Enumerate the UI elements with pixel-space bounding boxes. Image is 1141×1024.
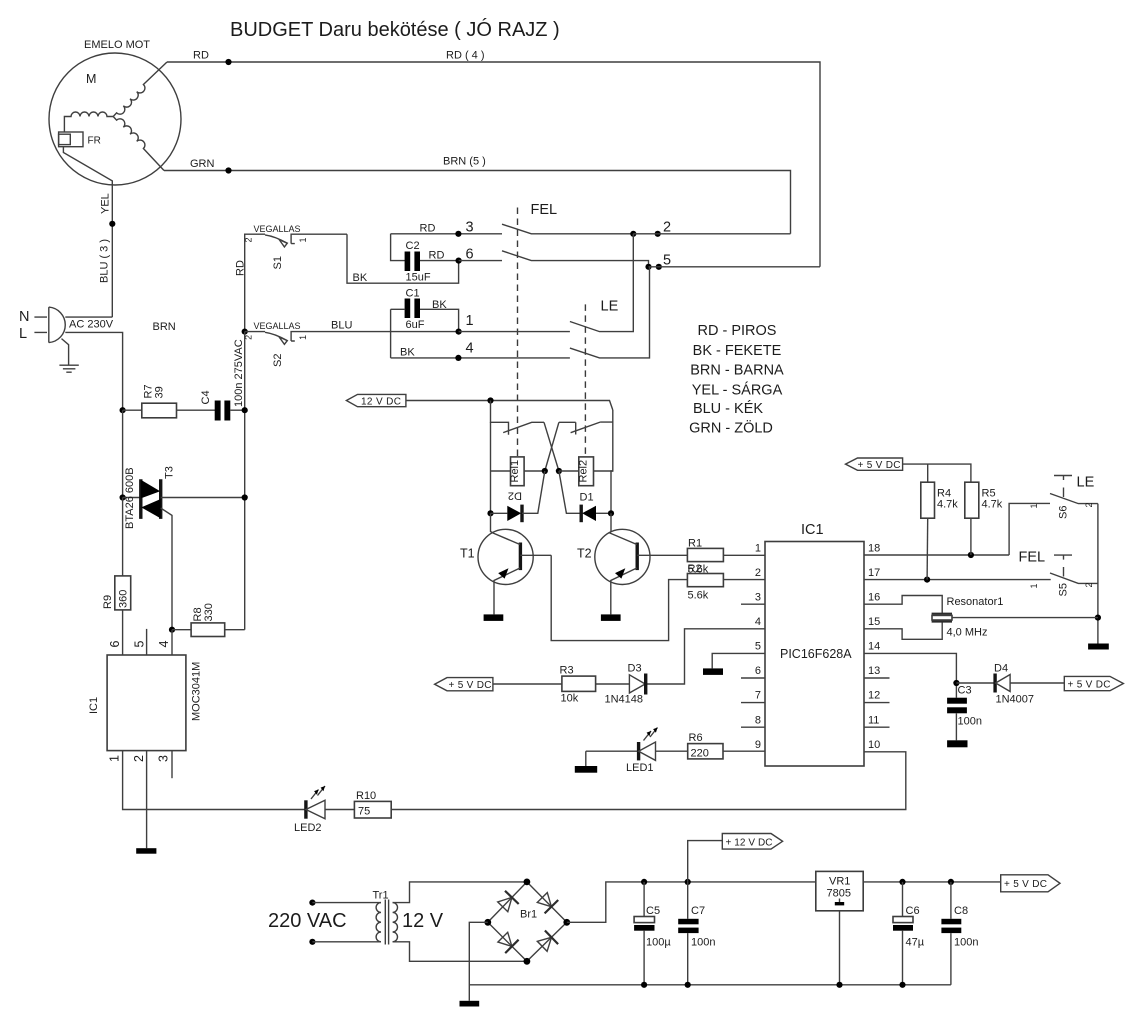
svg-text:5.6k: 5.6k	[688, 590, 709, 602]
svg-text:BRN - BARNA: BRN - BARNA	[690, 363, 784, 379]
AC plug connector AC 230V	[19, 307, 114, 343]
supply flag + 5 V DC (VR1 out)	[1001, 875, 1060, 892]
svg-text:L: L	[19, 326, 27, 342]
rail S2 down to C4/triac/R8	[244, 332, 246, 630]
svg-text:1: 1	[1029, 583, 1039, 588]
svg-text:Tr1: Tr1	[373, 890, 389, 902]
label 220 VAC	[268, 910, 347, 932]
svg-text:LE: LE	[1077, 475, 1095, 491]
wire T1 base to R2	[551, 555, 687, 640]
svg-text:1: 1	[108, 755, 122, 762]
label RD	[193, 50, 209, 62]
PIC right pin numbers	[868, 543, 880, 752]
wire VR1 out rail	[863, 879, 1001, 885]
svg-text:BTA26 600B: BTA26 600B	[124, 467, 136, 529]
svg-text:39: 39	[154, 386, 166, 398]
svg-text:C8: C8	[954, 905, 968, 917]
svg-text:12: 12	[868, 690, 880, 702]
capacitor C2 15uF	[391, 234, 459, 284]
label 100n 275VAC	[233, 339, 245, 407]
svg-text:+ 5 V DC: + 5 V DC	[858, 460, 901, 471]
svg-text:AC 230V: AC 230V	[69, 319, 114, 331]
FEL contact row 6	[502, 251, 649, 267]
wire row 3 (RD)	[391, 220, 502, 237]
bridge rectifier Br1	[484, 879, 570, 965]
svg-text:RD: RD	[420, 222, 436, 234]
svg-text:18: 18	[868, 543, 880, 555]
svg-text:2: 2	[1084, 582, 1094, 587]
svg-text:100n: 100n	[958, 716, 982, 728]
svg-text:15: 15	[868, 616, 880, 628]
node dot BRN rail at R7	[120, 407, 126, 413]
svg-text:3: 3	[466, 220, 474, 236]
svg-text:6: 6	[755, 665, 761, 677]
svg-text:BUDGET Daru bekötése ( JÓ RAJZ: BUDGET Daru bekötése ( JÓ RAJZ )	[230, 18, 560, 41]
wire BRN rail R7 to triac	[122, 410, 124, 497]
crossover wire right contact to Rel1	[545, 422, 559, 471]
label FEL top	[531, 202, 558, 218]
svg-text:5: 5	[755, 641, 761, 653]
svg-text:7805: 7805	[827, 888, 851, 900]
motor winding upper (RD phase)	[113, 62, 167, 117]
svg-text:4: 4	[157, 640, 171, 647]
svg-text:2: 2	[755, 567, 761, 579]
svg-text:4: 4	[466, 341, 474, 357]
svg-text:+ 5 V DC: + 5 V DC	[1004, 879, 1047, 890]
svg-text:100n 275VAC: 100n 275VAC	[233, 339, 245, 407]
svg-text:Resonator1: Resonator1	[947, 596, 1004, 608]
wire R10 to PIC pin10	[391, 752, 906, 810]
left rail 12V to Rel1/diode row	[490, 422, 492, 513]
wire secondary top to bridge	[393, 882, 527, 903]
svg-text:+ 12 V DC: + 12 V DC	[726, 838, 773, 849]
resistor R8 330	[169, 603, 245, 636]
svg-text:100n: 100n	[954, 937, 978, 949]
capacitor C6 47u	[893, 882, 925, 985]
svg-text:RD: RD	[235, 260, 247, 276]
stub MOC pin3	[171, 751, 173, 779]
svg-text:2: 2	[1084, 502, 1094, 507]
wire plug N to BLU(3)	[65, 316, 112, 318]
label LE top	[601, 299, 619, 315]
svg-text:C4: C4	[200, 390, 212, 404]
transformer Tr1	[373, 890, 444, 945]
svg-text:Rel1: Rel1	[509, 460, 521, 483]
motor winding left (FR phase)	[64, 112, 113, 132]
stub pin12	[864, 702, 890, 704]
svg-text:BRN (5 ): BRN (5 )	[443, 156, 486, 168]
diode D1 (flyback Rel2)	[559, 471, 614, 522]
svg-text:RD: RD	[193, 50, 209, 62]
svg-text:C6: C6	[906, 905, 920, 917]
resistor R3 10k	[493, 665, 596, 705]
title	[230, 18, 560, 41]
ground LED1	[575, 751, 597, 773]
wire pin14 to C3/D4	[864, 653, 995, 697]
svg-text:3: 3	[755, 592, 761, 604]
svg-text:VEGALLAS: VEGALLAS	[254, 224, 301, 234]
thermal switch FR	[59, 132, 101, 147]
svg-text:Rel2: Rel2	[578, 460, 590, 483]
ground PIC pin5	[703, 668, 723, 675]
svg-text:2: 2	[132, 755, 146, 762]
resistor R5 4.7k	[965, 482, 1003, 555]
svg-text:1N4007: 1N4007	[996, 694, 1035, 706]
wire LED2 to R10	[325, 809, 354, 811]
pushbutton S5 FEL	[1019, 550, 1098, 597]
svg-text:13: 13	[868, 665, 880, 677]
svg-text:IC1: IC1	[88, 697, 100, 714]
svg-text:4.7k: 4.7k	[937, 499, 958, 511]
bridge diode bottom-left	[498, 932, 519, 953]
svg-text:330: 330	[203, 603, 215, 621]
colour legend	[689, 323, 784, 437]
node dot rail at C4	[242, 407, 248, 413]
capacitor C1 6uF	[391, 288, 459, 358]
transistor T1	[460, 513, 551, 614]
motor winding lower (GRN phase)	[113, 117, 164, 171]
right rail S6/S5 to ground	[1095, 504, 1101, 644]
svg-text:16: 16	[868, 592, 880, 604]
svg-text:FR: FR	[88, 136, 101, 147]
svg-text:C1: C1	[406, 288, 420, 300]
LE contact row 1	[570, 234, 633, 332]
limit switch S1 VEGALLAS	[244, 224, 348, 332]
label BRN (5 )	[443, 156, 486, 168]
svg-text:7: 7	[755, 690, 761, 702]
node 2 junction	[630, 220, 790, 237]
svg-text:R9: R9	[102, 595, 114, 609]
wire plug L to BRN rail	[65, 332, 122, 410]
svg-text:LED1: LED1	[626, 762, 654, 774]
wire FR to YEL node	[63, 147, 112, 317]
ground MOC pin2	[136, 848, 156, 854]
svg-text:100n: 100n	[691, 937, 715, 949]
svg-text:S1: S1	[272, 256, 284, 269]
wire S1 output BK to node 6	[347, 234, 459, 284]
wire row 6 (RD)	[429, 246, 503, 263]
stub pin13	[864, 677, 890, 679]
svg-text:C7: C7	[691, 905, 705, 917]
capacitor C8 100n	[941, 882, 978, 985]
svg-text:47µ: 47µ	[906, 937, 925, 949]
stub pin6	[741, 677, 765, 679]
ground C3	[947, 740, 967, 747]
svg-text:BLU: BLU	[331, 320, 352, 332]
svg-text:T2: T2	[577, 547, 592, 561]
wire ground rail bottom	[469, 982, 951, 988]
svg-text:8: 8	[755, 715, 761, 727]
capacitor C5 100u	[634, 882, 671, 985]
resistor R10 75	[354, 790, 391, 818]
svg-text:RD: RD	[429, 249, 445, 261]
label GRN	[190, 158, 215, 170]
svg-text:4.7k: 4.7k	[982, 499, 1003, 511]
diode D3 1N4148	[596, 663, 646, 706]
svg-text:M: M	[86, 72, 96, 86]
svg-text:T3: T3	[164, 466, 176, 479]
wire row 1 (BLU) node	[456, 313, 570, 335]
svg-text:10: 10	[868, 739, 880, 751]
FEL contact row 3	[502, 224, 633, 234]
wire MOC pin4	[171, 630, 173, 655]
svg-text:YEL: YEL	[100, 193, 112, 214]
stub pin3	[741, 603, 765, 605]
capacitor C4 100n 275VAC	[200, 390, 245, 420]
bridge diode top-right	[537, 893, 558, 914]
svg-text:LE: LE	[601, 299, 619, 315]
node dot on GRN wire	[225, 167, 231, 173]
svg-text:LED2: LED2	[294, 822, 322, 834]
svg-text:T1: T1	[460, 547, 475, 561]
svg-text:BK: BK	[432, 299, 447, 311]
svg-text:R1: R1	[688, 538, 702, 550]
LED2	[294, 786, 325, 834]
svg-text:D4: D4	[994, 663, 1008, 675]
resistor R9 360	[102, 498, 131, 656]
wire RD (4) top net	[167, 62, 820, 267]
wire secondary bottom to bridge	[393, 942, 527, 962]
svg-text:BLU - KÉK: BLU - KÉK	[693, 400, 763, 417]
svg-text:FEL: FEL	[531, 202, 558, 218]
svg-text:1: 1	[298, 237, 308, 242]
svg-text:2: 2	[663, 220, 671, 236]
label RD on rail	[235, 260, 247, 276]
svg-text:17: 17	[868, 567, 880, 579]
svg-text:6uF: 6uF	[406, 319, 425, 331]
ground T2 emitter	[601, 614, 621, 621]
svg-text:R10: R10	[356, 790, 376, 802]
wire pin5 to ground	[712, 653, 765, 668]
svg-text:GRN - ZÖLD: GRN - ZÖLD	[689, 419, 773, 437]
bridge diode bottom-right	[537, 931, 558, 952]
svg-text:BLU ( 3 ): BLU ( 3 )	[99, 239, 111, 283]
wire pin17 to S5	[864, 577, 1051, 583]
svg-text:EMELO MOT: EMELO MOT	[84, 39, 150, 51]
svg-text:VEGALLAS: VEGALLAS	[254, 321, 301, 331]
svg-text:12 V DC: 12 V DC	[361, 397, 401, 408]
label YEL	[100, 193, 112, 214]
stub MOC pin5	[146, 629, 148, 655]
svg-text:6: 6	[108, 640, 122, 647]
capacitor C3 100n	[947, 685, 982, 741]
svg-text:BK: BK	[400, 347, 415, 359]
svg-text:100µ: 100µ	[646, 937, 671, 949]
wire pin18 to S6	[864, 552, 1009, 558]
resistor R6 220	[656, 732, 766, 760]
resistor R1 5.6k	[687, 538, 765, 576]
motor M1 EMELO MOT body	[49, 39, 181, 185]
diode D4 1N4007	[994, 663, 1064, 706]
wire pin4 to D3	[646, 629, 765, 684]
wire row 4 (BK)	[391, 341, 570, 362]
relay contact K1 (FEL)	[491, 401, 545, 435]
svg-text:+ 5 V DC: + 5 V DC	[1068, 680, 1111, 691]
svg-text:R3: R3	[560, 665, 574, 677]
label RD ( 4 )	[446, 50, 485, 62]
diode D2 (flyback Rel1)	[487, 471, 544, 522]
svg-text:MOC3041M: MOC3041M	[191, 662, 203, 721]
stub pin7	[741, 702, 765, 704]
svg-text:360: 360	[118, 590, 130, 608]
PIC left pin numbers	[755, 543, 761, 752]
svg-text:N: N	[19, 309, 29, 325]
svg-text:+ 5 V DC: + 5 V DC	[449, 680, 492, 691]
wire +12V rail	[567, 879, 816, 922]
relay coil Rel2	[556, 457, 613, 486]
svg-text:RD ( 4 ): RD ( 4 )	[446, 50, 485, 62]
svg-text:D2: D2	[508, 490, 522, 502]
svg-text:R6: R6	[689, 732, 703, 744]
svg-text:220: 220	[691, 748, 709, 760]
node 5 junction	[645, 253, 820, 270]
svg-text:C5: C5	[646, 905, 660, 917]
supply flag + 5 V DC (R3)	[435, 678, 493, 691]
capacitor C7 100n	[678, 882, 715, 985]
supply flag 12 V DC	[346, 394, 406, 407]
wire bridge minus to ground	[469, 922, 488, 1001]
svg-text:4,0 MHz: 4,0 MHz	[947, 627, 988, 639]
resonator Resonator1 4,0 MHz	[864, 596, 1098, 640]
svg-text:75: 75	[358, 806, 370, 818]
svg-text:1: 1	[466, 313, 474, 329]
label BRN	[153, 321, 176, 333]
svg-text:BK: BK	[353, 272, 368, 284]
microcontroller IC1 PIC16F628A	[765, 522, 864, 766]
supply flag + 12 V DC	[688, 834, 783, 882]
svg-text:1: 1	[1029, 503, 1039, 508]
LE contact row 4	[570, 267, 650, 358]
svg-text:IC1: IC1	[801, 522, 824, 538]
svg-text:1: 1	[755, 543, 761, 555]
supply flag + 5 V DC (pullups)	[846, 458, 971, 482]
svg-text:Br1: Br1	[520, 909, 537, 921]
svg-text:3: 3	[157, 755, 171, 762]
svg-text:S2: S2	[272, 354, 284, 367]
bridge diode top-left	[498, 891, 519, 912]
svg-text:2: 2	[244, 237, 254, 242]
ground T1 emitter	[484, 614, 504, 621]
svg-text:10k: 10k	[561, 693, 579, 705]
earth ground at plug	[59, 339, 78, 373]
svg-text:5: 5	[133, 640, 147, 647]
LED1	[586, 728, 658, 775]
svg-text:11: 11	[868, 715, 879, 727]
optocoupler IC1 MOC3041M	[88, 640, 203, 762]
triac T3 BTA26 600B	[120, 466, 248, 630]
node YEL junction	[109, 221, 115, 227]
wire GRN / BRN(5) net	[164, 171, 791, 234]
label BLU ( 3 )	[99, 239, 111, 283]
svg-text:220 VAC: 220 VAC	[268, 910, 347, 932]
voltage regulator VR1 7805	[816, 871, 863, 984]
svg-text:S5: S5	[1058, 583, 1070, 596]
svg-text:1N4148: 1N4148	[605, 694, 644, 706]
resistor R4 4.7k	[921, 482, 958, 579]
svg-text:FEL: FEL	[1019, 550, 1046, 566]
svg-text:YEL - SÁRGA: YEL - SÁRGA	[692, 381, 783, 398]
svg-text:5: 5	[663, 253, 671, 269]
limit switch S2 VEGALLAS	[242, 321, 459, 367]
svg-text:S6: S6	[1058, 506, 1070, 519]
svg-text:C3: C3	[958, 685, 972, 697]
dashed link LE switch	[584, 304, 586, 457]
wire MOC pin1 to LED2 row	[123, 751, 306, 810]
svg-text:14: 14	[868, 641, 880, 653]
ground S5/S6 rail	[1088, 644, 1109, 650]
relay coil Rel1	[491, 457, 548, 486]
svg-text:9: 9	[755, 739, 761, 751]
ground bridge	[460, 1001, 480, 1007]
svg-text:GRN: GRN	[190, 158, 215, 170]
svg-text:D1: D1	[580, 492, 594, 504]
svg-text:12 V: 12 V	[402, 910, 444, 932]
stub pin8	[741, 726, 765, 728]
crossover wire left contact to Rel2	[544, 422, 559, 471]
svg-text:C2: C2	[406, 240, 420, 252]
supply flag + 5 V DC (D4 out)	[1064, 676, 1123, 690]
wire MOC pin2 to ground	[146, 751, 148, 849]
resistor R2 5.6k	[687, 574, 765, 602]
svg-text:15uF: 15uF	[406, 272, 431, 284]
transistor T2	[577, 513, 687, 614]
svg-text:VR1: VR1	[829, 876, 850, 888]
svg-text:PIC16F628A: PIC16F628A	[780, 647, 852, 661]
node dot on RD wire	[225, 59, 231, 65]
label BLU	[331, 320, 352, 332]
svg-text:D3: D3	[628, 663, 642, 675]
right rail to Rel2/diode row	[611, 422, 613, 513]
svg-text:RD - PIROS: RD - PIROS	[698, 323, 777, 339]
wire 12V rail	[406, 397, 613, 410]
svg-text:BK - FEKETE: BK - FEKETE	[693, 343, 782, 359]
stub pin11	[864, 726, 890, 728]
svg-text:4: 4	[755, 616, 761, 628]
transformer Tr1 primary terminals	[309, 900, 381, 945]
pushbutton S6 LE	[1009, 475, 1098, 556]
resistor R7 39	[123, 384, 216, 417]
relay contact K2 (LE)	[559, 410, 613, 435]
dashed link FEL switch	[517, 208, 519, 457]
svg-text:BRN: BRN	[153, 321, 176, 333]
svg-text:1: 1	[298, 335, 308, 340]
